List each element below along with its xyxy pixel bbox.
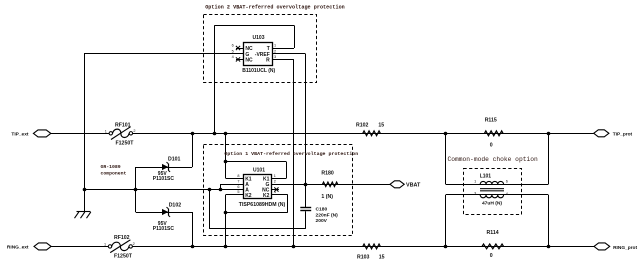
svg-text:U101: U101 — [253, 168, 265, 174]
svg-text:K2: K2 — [245, 193, 252, 199]
svg-text:0: 0 — [490, 253, 493, 259]
svg-text:5: 5 — [237, 190, 239, 194]
svg-text:200V: 200V — [316, 218, 328, 224]
svg-text:U103: U103 — [253, 35, 265, 41]
svg-text:4: 4 — [232, 55, 234, 59]
svg-text:7: 7 — [237, 180, 239, 184]
svg-text:Common-mode choke option: Common-mode choke option — [448, 156, 538, 163]
svg-text:1: 1 — [474, 180, 476, 184]
svg-text:6: 6 — [506, 180, 508, 184]
svg-text:2: 2 — [133, 129, 135, 133]
svg-text:TIP_ext: TIP_ext — [11, 131, 28, 137]
svg-text:VBAT: VBAT — [406, 183, 421, 189]
svg-text:R103: R103 — [357, 254, 370, 260]
svg-text:4: 4 — [506, 192, 508, 196]
svg-text:R115: R115 — [485, 118, 497, 124]
svg-text:F1250T: F1250T — [114, 254, 133, 260]
svg-text:1 (N): 1 (N) — [321, 194, 333, 200]
svg-text:C180: C180 — [316, 207, 328, 213]
svg-text:TISP61089HDM (N): TISP61089HDM (N) — [239, 202, 286, 208]
svg-text:GR-1089: GR-1089 — [101, 164, 121, 170]
svg-text:2: 2 — [133, 242, 135, 246]
svg-text:P1101SC: P1101SC — [153, 176, 175, 182]
svg-text:Option 1 VBAT-referred overvol: Option 1 VBAT-referred overvoltage prote… — [224, 151, 358, 157]
svg-text:2: 2 — [274, 49, 276, 53]
svg-text:R102: R102 — [356, 123, 369, 129]
svg-text:2: 2 — [274, 180, 276, 184]
svg-text:1: 1 — [274, 174, 276, 178]
svg-text:0: 0 — [490, 143, 493, 149]
svg-text:R180: R180 — [321, 171, 334, 177]
svg-text:15: 15 — [379, 254, 385, 260]
svg-text:TIP_prot: TIP_prot — [613, 131, 633, 137]
svg-text:NC: NC — [245, 57, 253, 63]
svg-text:RING_prot: RING_prot — [613, 245, 637, 251]
svg-text:1: 1 — [105, 129, 107, 133]
svg-text:P1101SC: P1101SC — [153, 226, 175, 232]
svg-text:3: 3 — [474, 191, 476, 195]
svg-text:8: 8 — [237, 174, 239, 178]
svg-text:5: 5 — [232, 49, 234, 53]
svg-text:1: 1 — [104, 242, 106, 246]
svg-text:component: component — [101, 171, 127, 177]
svg-text:4: 4 — [274, 190, 276, 194]
svg-text:R114: R114 — [487, 230, 499, 236]
svg-text:RING_ext: RING_ext — [7, 245, 29, 251]
svg-text:6: 6 — [232, 44, 234, 48]
svg-text:L101: L101 — [480, 174, 492, 180]
svg-text:F1250T: F1250T — [116, 140, 135, 146]
svg-text:Option 2 VBAT-referred overvol: Option 2 VBAT-referred overvoltage prote… — [205, 5, 345, 11]
svg-text:RF101: RF101 — [115, 123, 131, 129]
svg-text:B1101UCL (N): B1101UCL (N) — [242, 68, 275, 74]
svg-text:1: 1 — [274, 44, 276, 48]
svg-text:220nF (N): 220nF (N) — [316, 213, 339, 219]
svg-text:15: 15 — [378, 123, 384, 129]
svg-text:D102: D102 — [169, 203, 182, 209]
svg-text:6: 6 — [237, 185, 239, 189]
svg-text:RF102: RF102 — [114, 235, 130, 241]
svg-text:3: 3 — [274, 55, 276, 59]
svg-text:D101: D101 — [168, 156, 181, 162]
svg-text:47uH (N): 47uH (N) — [482, 201, 502, 207]
svg-text:R: R — [266, 57, 270, 63]
svg-text:K2: K2 — [263, 193, 270, 199]
